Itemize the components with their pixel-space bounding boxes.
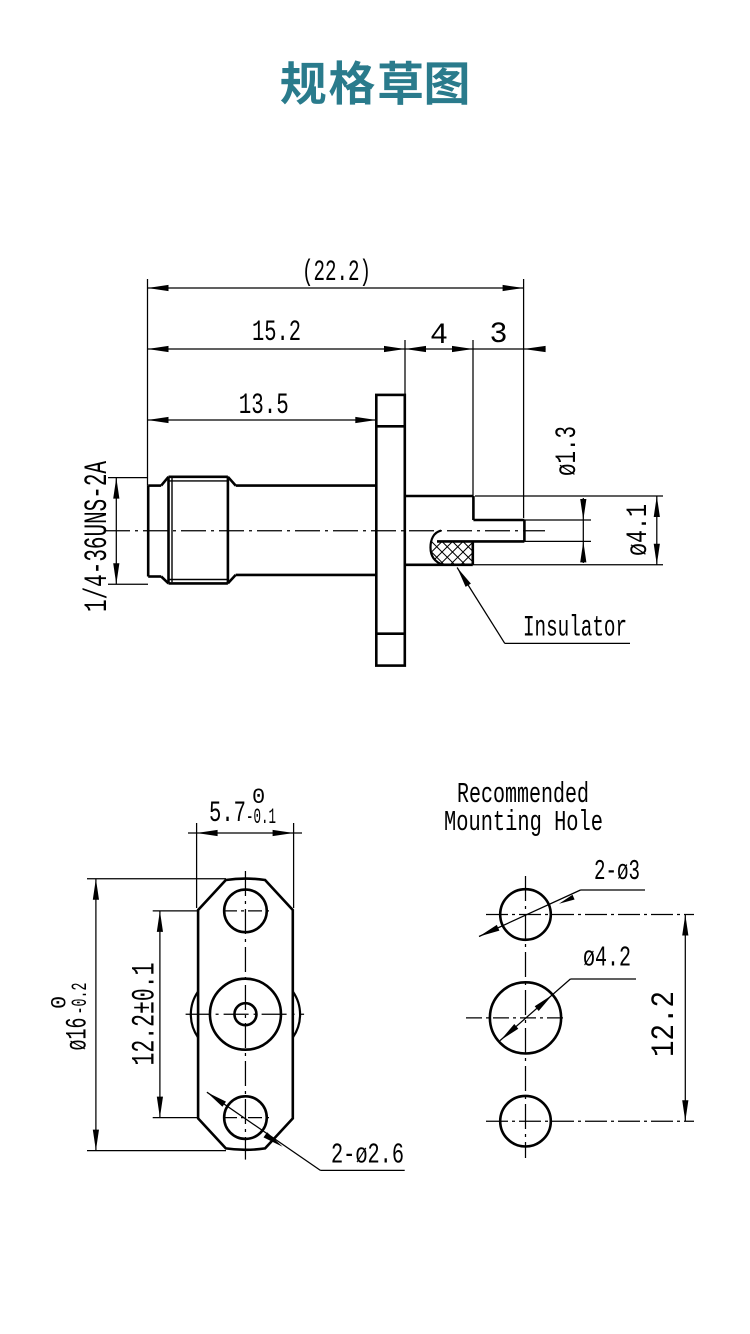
- vertical centerline: [525, 876, 527, 1158]
- dim 13.5: [148, 419, 377, 421]
- arrow at circle edge: [559, 895, 575, 904]
- arrow upper-right edge: [535, 995, 553, 1011]
- chamfer thread-to-nut top: [161, 477, 168, 486]
- mounting hole circle bottom: [500, 1096, 551, 1147]
- svg-text:ø4.1: ø4.1: [622, 504, 656, 556]
- insulator outline (left curved edge): [431, 531, 444, 565]
- svg-text:-0.2: -0.2: [68, 983, 93, 1015]
- thread end cylinder: [147, 486, 150, 577]
- dim 12.2: [684, 915, 686, 1122]
- mounting hole bottom: [224, 1096, 267, 1139]
- dim (22.2): [148, 287, 524, 289]
- phi1.3 arrows: [580, 499, 586, 520]
- title character 草: [380, 61, 422, 105]
- svg-text:13.5: 13.5: [239, 389, 289, 423]
- leader arrow down-right: [264, 1132, 283, 1147]
- svg-text:5.7: 5.7: [209, 797, 246, 831]
- arrows 4: [405, 346, 426, 352]
- chamfer thread-to-nut bottom: [161, 577, 168, 584]
- arrow lower-left: [479, 925, 499, 937]
- nut-to-barrel chamfer top: [228, 477, 236, 486]
- title character 图: [427, 62, 467, 104]
- horizontal centerline middle: [186, 1013, 305, 1015]
- dim phi1.3: [524, 519, 591, 521]
- arrows 15.2: [148, 346, 169, 352]
- center boss outer circle: [210, 979, 281, 1050]
- svg-text:2-ø3: 2-ø3: [594, 855, 640, 888]
- dim 5.7 0/-0.1: [196, 823, 198, 908]
- center pin hole circle: [234, 1003, 256, 1025]
- side bulge arc left: [191, 992, 198, 1038]
- svg-text:2-ø2.6: 2-ø2.6: [331, 1139, 404, 1172]
- phi4.1 arrows: [654, 496, 660, 517]
- nut hex flat lines: [169, 480, 228, 482]
- mounting hole circle middle: [490, 982, 561, 1053]
- vertical centerline: [244, 871, 246, 1160]
- svg-text:ø4.2: ø4.2: [583, 942, 631, 975]
- svg-text:1/4-36UNS-2A: 1/4-36UNS-2A: [79, 460, 116, 612]
- dim phi16 0/-0.2: [87, 878, 226, 880]
- extension line left end x=147.5: [147, 279, 149, 486]
- dim 1/4-36UNS-2A (thread): [115, 478, 117, 585]
- side bulge arc right: [293, 992, 300, 1038]
- insulator arrow: [457, 568, 471, 587]
- svg-text:-0.1: -0.1: [246, 805, 276, 830]
- barrel body: [236, 484, 377, 487]
- svg-text:3: 3: [489, 318, 507, 352]
- dim line 15.2 / 4 / 3: [148, 348, 546, 350]
- rear body (4mm section): [405, 495, 474, 498]
- centerline of connector axis: [105, 530, 545, 532]
- svg-text:Mounting Hole: Mounting Hole: [444, 806, 603, 839]
- leader 2-phi2.6: [207, 1092, 321, 1170]
- hex coupling nut body: [169, 475, 228, 478]
- insulator right edge: [471, 541, 474, 564]
- leader arrow up-left: [207, 1092, 226, 1107]
- svg-text:Insulator: Insulator: [523, 612, 627, 646]
- leader 2-phi3: [479, 890, 581, 937]
- arrow 3 outside: [524, 346, 546, 352]
- title character 格: [329, 60, 374, 104]
- nut-to-barrel chamfer bottom: [228, 575, 236, 584]
- extension line x=473: [472, 340, 474, 496]
- svg-text:ø1.3: ø1.3: [551, 426, 585, 476]
- title character 规: [281, 61, 326, 105]
- flange side view: [376, 395, 405, 666]
- leader phi4.2: [500, 979, 570, 1041]
- dim phi4.1: [475, 495, 663, 497]
- dim 12.2 +-0.1: [153, 910, 198, 912]
- mounting hole top: [224, 890, 267, 933]
- extension line x=405 (flange right face): [404, 340, 406, 395]
- svg-text:12.2: 12.2: [646, 991, 683, 1057]
- extension line x=523.6 (pin end): [523, 279, 525, 518]
- svg-text:ø16: ø16: [62, 1018, 96, 1051]
- svg-text:4: 4: [430, 319, 448, 353]
- horizontal centerline top (ext to dim): [486, 914, 694, 916]
- leader Insulator: [457, 568, 505, 644]
- svg-text:15.2: 15.2: [252, 316, 301, 350]
- mounting hole circle top: [500, 889, 551, 940]
- horizontal centerline bottom (ext to dim): [486, 1120, 694, 1122]
- arrow lower-left edge: [501, 1024, 519, 1040]
- horizontal centerline top hole: [223, 910, 271, 912]
- svg-text:(22.2): (22.2): [302, 256, 371, 290]
- horizontal centerline bottom hole: [223, 1117, 271, 1119]
- flange front outline (octagon with arcs): [198, 879, 293, 1150]
- horizontal centerline middle: [466, 1017, 567, 1019]
- contact pin: [473, 519, 524, 522]
- svg-text:12.2±0.1: 12.2±0.1: [127, 963, 164, 1066]
